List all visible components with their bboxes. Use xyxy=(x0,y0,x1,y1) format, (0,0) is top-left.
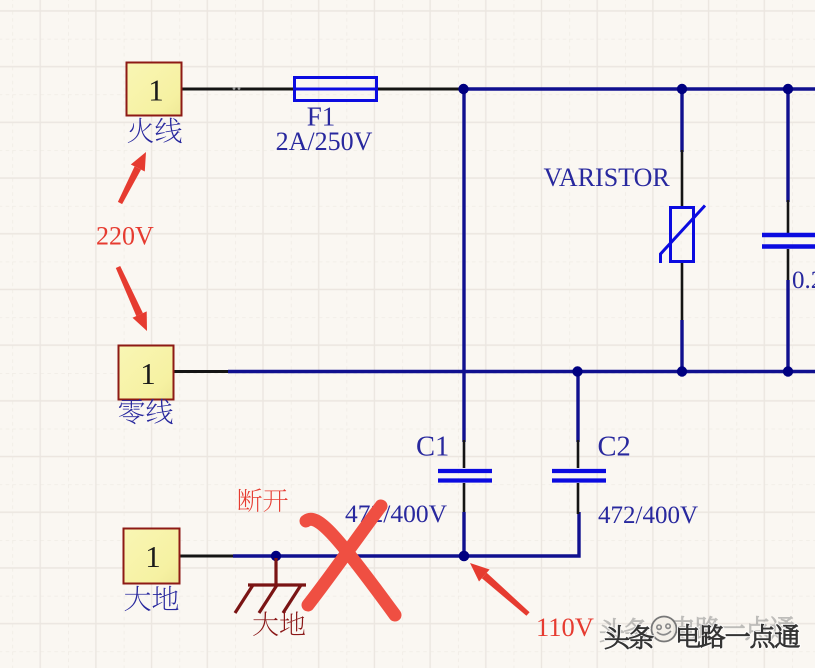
annotation arrow to 110V node xyxy=(470,563,530,616)
pin C1 bottom (black) xyxy=(463,483,466,514)
svg-text:VARISTOR: VARISTOR xyxy=(544,163,671,192)
varistor RV xyxy=(661,206,706,264)
junction node top-A xyxy=(458,84,468,94)
svg-text:220V: 220V xyxy=(96,222,154,251)
svg-text:110V: 110V xyxy=(536,612,594,642)
annotation arrow up to live xyxy=(118,152,146,204)
pin varistor bottom (black) xyxy=(681,261,684,322)
watermark white halo xyxy=(605,624,799,649)
svg-text:C1: C1 xyxy=(416,432,449,463)
ground earth symbol (maroon) xyxy=(235,558,306,613)
junction node mid-A xyxy=(572,366,582,376)
pin CX top (black) xyxy=(787,200,790,233)
svg-text:1: 1 xyxy=(140,356,156,391)
connector P1 (live) xyxy=(127,63,182,116)
watermark logo face marks xyxy=(657,624,671,635)
wire live bus top (navy) xyxy=(462,87,815,90)
watermark ghost copy xyxy=(600,616,794,642)
wire CX branch upper (navy) xyxy=(786,89,789,202)
fuse F1 xyxy=(294,78,377,101)
watermark circle logo xyxy=(652,617,677,642)
wire C1 branch upper (navy) xyxy=(462,89,465,442)
connector P3 (earth) xyxy=(124,529,180,584)
wire fuse to node A (black) xyxy=(376,88,464,91)
pin C2 top (black) xyxy=(577,440,580,468)
label 零线 xyxy=(119,399,173,424)
svg-text:1: 1 xyxy=(148,73,164,108)
wire C2 branch upper (navy) xyxy=(576,372,579,443)
watermark main text xyxy=(605,624,799,649)
wire neutral stub (black) xyxy=(174,370,230,373)
connector P2 (neutral) xyxy=(119,346,174,400)
pin CX bottom (black) xyxy=(787,249,790,282)
annotation arrow down to neutral xyxy=(116,266,147,331)
svg-text:0.22: 0.22 xyxy=(792,267,815,294)
annotation X cross stroke 2 xyxy=(308,506,381,605)
svg-text:472/400V: 472/400V xyxy=(598,502,698,529)
annotation X cross stroke 1 xyxy=(306,519,395,615)
junction node top-B xyxy=(677,84,687,94)
junction node top-C xyxy=(783,84,793,94)
pin hotspot dots xyxy=(233,87,236,90)
wire earth bottom (navy) xyxy=(233,512,579,556)
wire neutral bus (navy) xyxy=(228,370,815,373)
junction node mid-B xyxy=(677,366,687,376)
pin varistor top (black) xyxy=(681,150,684,208)
wire varistor branch upper (navy) xyxy=(680,89,683,152)
capacitor C2 xyxy=(552,471,606,481)
wire varistor branch lower (navy) xyxy=(680,320,683,372)
junction node mid-C xyxy=(783,366,793,376)
wire live: connector to fuse (black) xyxy=(182,88,296,91)
capacitor CX (clipped at right edge) xyxy=(762,235,815,247)
label 大地 (blue) xyxy=(125,586,179,611)
annotation 断开 xyxy=(238,488,288,512)
label 火线 xyxy=(128,118,182,143)
junction node earth tap xyxy=(271,551,281,561)
svg-text:C2: C2 xyxy=(598,432,631,463)
wire earth stub (black) xyxy=(180,555,235,558)
label 大地 (maroon) xyxy=(253,612,305,637)
capacitor C1 xyxy=(438,471,492,481)
svg-text:1: 1 xyxy=(145,539,161,574)
wire C1 branch lower (navy) xyxy=(462,512,465,556)
pin C2 bottom (black) xyxy=(577,483,580,514)
junction node bottom C1 xyxy=(459,551,470,562)
pin C1 top (black) xyxy=(463,440,466,468)
svg-text:2A/250V: 2A/250V xyxy=(276,127,373,156)
wire CX branch lower (navy) xyxy=(786,280,789,372)
